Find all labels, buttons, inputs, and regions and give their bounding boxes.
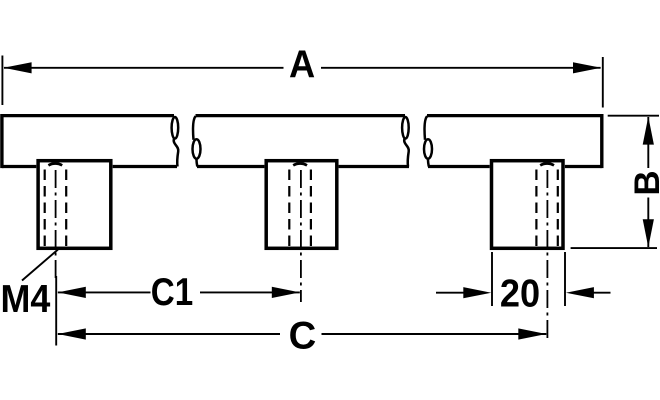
dimension C1 right arrowhead <box>272 287 300 298</box>
dimension B extension line top <box>608 115 659 117</box>
dimension C1 left arrowhead <box>58 287 86 298</box>
dimension C1 line <box>58 291 300 293</box>
break 2 right S-curve <box>424 116 432 166</box>
dimension 20 left arrowhead <box>463 287 491 298</box>
bar left end edge <box>0 114 3 168</box>
dimension C line <box>58 333 547 335</box>
post 1 hidden thread lines <box>45 170 66 247</box>
dimension B bottom arrowhead <box>643 219 654 247</box>
break 1 right S-curve <box>193 116 201 166</box>
M4 leader line <box>22 250 58 281</box>
dimension C right arrowhead <box>518 328 546 339</box>
bar tube top edge segments <box>2 114 602 117</box>
post 2 drill dome <box>293 164 307 166</box>
dimension A left arrowhead <box>4 62 32 73</box>
post 2 hidden thread lines <box>289 170 311 247</box>
dimension 20 right tail line <box>594 292 611 294</box>
post 1 centerline <box>55 170 57 282</box>
dimension C left arrowhead <box>58 328 86 339</box>
post 1 drill dome <box>48 164 62 166</box>
post 3 centerline <box>546 170 548 341</box>
svg-text:M4: M4 <box>0 277 50 321</box>
svg-text:C1: C1 <box>151 270 193 314</box>
post 3 drill dome <box>540 164 554 166</box>
post 3 (right) outline <box>492 161 564 249</box>
dimension B extension line bottom <box>571 247 657 249</box>
dimension A right arrowhead <box>573 62 601 73</box>
post 1 (left) outline <box>38 161 111 249</box>
svg-text:A: A <box>289 42 315 85</box>
svg-text:B: B <box>628 170 660 195</box>
svg-text:C: C <box>289 314 317 357</box>
dimension A extension line right <box>602 57 604 108</box>
dimension B line <box>647 117 649 247</box>
dimension B top arrowhead <box>643 117 654 145</box>
post 2 (middle) outline <box>266 161 337 249</box>
dimension A line <box>4 67 601 69</box>
dimension A extension line left <box>1 56 3 106</box>
post 3 hidden thread lines <box>536 170 557 247</box>
bar tube bottom edge segments <box>2 165 602 168</box>
bar right end edge <box>600 114 603 168</box>
dimension 20 extension line left <box>491 252 493 306</box>
post 2 centerline <box>300 170 302 302</box>
dimension C1/C extension line at left hole center <box>55 276 57 346</box>
dimension 20 left tail line <box>436 292 465 294</box>
dimension 20 right arrowhead <box>566 287 594 298</box>
break 2 left S-curve <box>402 117 409 167</box>
dimension 20 extension line right <box>564 252 566 306</box>
svg-text:20: 20 <box>500 271 540 315</box>
break 1 left S-curve <box>172 117 179 167</box>
